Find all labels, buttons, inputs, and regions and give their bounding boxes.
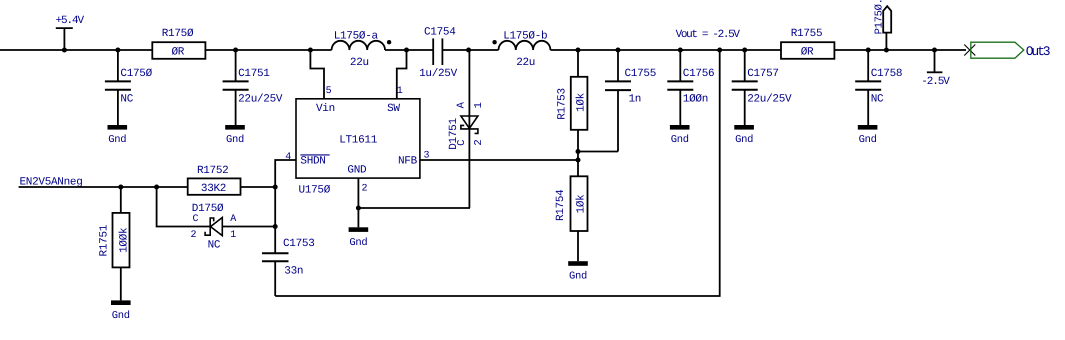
junction C1750 [115, 48, 120, 53]
capacitor C1750 [105, 50, 153, 125]
inductor L1750-b [492, 30, 550, 69]
svg-text:22u/25V: 22u/25V [747, 94, 792, 106]
capacitor C1755 [605, 50, 656, 152]
svg-text:R175Ø: R175Ø [162, 28, 194, 40]
svg-text:Gnd: Gnd [569, 271, 587, 283]
svg-text:C1757: C1757 [747, 68, 779, 80]
junction P1750 [884, 48, 889, 53]
wire to pin 1 SW [397, 50, 407, 99]
wire SHDN bus [275, 160, 296, 253]
svg-text:1: 1 [473, 102, 485, 108]
ground under R1751 [111, 300, 131, 322]
svg-text:C1754: C1754 [424, 27, 456, 39]
junction C1755 top [616, 48, 621, 53]
ground under U1750 [349, 227, 369, 249]
svg-text:5: 5 [326, 86, 332, 97]
resistor R1755 [781, 28, 834, 59]
power flag -2.5V [921, 50, 950, 88]
svg-text:1: 1 [230, 230, 236, 241]
ground under C1757 [734, 125, 754, 146]
svg-text:C175Ø: C175Ø [120, 68, 152, 80]
wire R1755 to output port [834, 49, 966, 51]
ground under R1754 [568, 261, 588, 282]
no-connect X at port pin [964, 45, 975, 56]
wire to D1750 cathode [157, 187, 211, 227]
pin name SHDN with overline [300, 155, 329, 168]
sheet port Out3 [971, 42, 1050, 59]
resistor R1752 [188, 165, 241, 195]
svg-text:P175Ø.: P175Ø. [874, 0, 886, 34]
svg-text:Vout = -2.5V: Vout = -2.5V [676, 29, 741, 41]
wire GND pin 2 [357, 178, 359, 227]
junction +5.4V tap [62, 48, 67, 53]
wire feedback loop [275, 50, 720, 296]
svg-text:R1755: R1755 [791, 28, 823, 40]
svg-text:SW: SW [387, 103, 400, 115]
junction D1750 branch [154, 185, 159, 190]
ground under C1756 [670, 125, 690, 146]
svg-text:NC: NC [120, 94, 133, 106]
svg-text:+5.4V: +5.4V [56, 15, 85, 27]
junction D1751 anode node [466, 48, 471, 53]
svg-text:GND: GND [347, 165, 367, 177]
svg-text:C1751: C1751 [238, 68, 270, 80]
svg-text:1u/25V: 1u/25V [419, 68, 458, 80]
svg-text:R1751: R1751 [99, 224, 111, 256]
ground under C1750 [108, 125, 128, 146]
svg-text:2: 2 [191, 230, 197, 241]
svg-text:2: 2 [362, 184, 368, 195]
svg-text:2: 2 [473, 140, 485, 146]
junction SHDN/D1750 [273, 224, 278, 229]
svg-text:Gnd: Gnd [735, 134, 753, 146]
junction C1756 [678, 48, 683, 53]
ground under C1751 [225, 125, 245, 146]
power flag +5.4V [56, 15, 85, 50]
resistor R1750 [152, 28, 205, 59]
junction C1757 [742, 48, 747, 53]
junction -2.5V tap [932, 48, 937, 53]
svg-text:SHDN: SHDN [300, 156, 325, 168]
svg-text:NFB: NFB [398, 156, 418, 168]
wire D1751 cathode to GND pin [358, 207, 470, 209]
svg-text:1ØØn: 1ØØn [683, 94, 708, 106]
svg-text:R1753: R1753 [557, 88, 569, 120]
svg-text:Vin: Vin [316, 103, 335, 115]
svg-text:Out3: Out3 [1026, 44, 1050, 59]
test point P1750 [874, 0, 892, 50]
junction SHDN/R1752 [273, 185, 278, 190]
svg-text:22u: 22u [516, 57, 535, 69]
svg-text:Gnd: Gnd [112, 310, 130, 322]
diode D1751 [448, 50, 485, 208]
diode D1750 [191, 203, 237, 252]
wire C1754 to D1751 node [442, 49, 498, 51]
capacitor C1753 [262, 238, 315, 296]
wire output rail [550, 49, 781, 51]
svg-text:NC: NC [208, 240, 221, 252]
svg-text:33n: 33n [284, 266, 303, 278]
svg-text:33K2: 33K2 [201, 183, 226, 195]
svg-text:1ØØk: 1ØØk [119, 227, 131, 253]
svg-text:L175Ø-a: L175Ø-a [334, 30, 379, 42]
svg-text:1Øk: 1Øk [576, 194, 588, 214]
svg-text:R1754: R1754 [555, 189, 567, 221]
junction R1751 top [118, 185, 123, 190]
resistor R1754 [555, 160, 588, 261]
svg-text:L175Ø-b: L175Ø-b [503, 30, 547, 42]
svg-text:4: 4 [285, 152, 291, 163]
svg-text:Gnd: Gnd [671, 134, 689, 146]
svg-text:ØR: ØR [171, 46, 184, 58]
ground under C1758 [858, 125, 878, 146]
svg-text:1Øk: 1Øk [576, 92, 588, 112]
wire D1750 anode [222, 226, 275, 228]
wire EN2V5ANneg net [19, 186, 188, 188]
svg-text:C1753: C1753 [283, 238, 315, 250]
svg-text:U175Ø: U175Ø [299, 185, 331, 197]
capacitor C1757 [732, 50, 792, 125]
svg-text:A: A [230, 214, 236, 225]
capacitor C1758 [855, 50, 902, 125]
inductor L1750-a [332, 30, 392, 69]
junction R1753 top [576, 48, 581, 53]
junction C1758 [866, 48, 871, 53]
svg-text:22u/25V: 22u/25V [238, 94, 283, 106]
capacitor C1756 [667, 50, 714, 125]
wire to pin 5 Vin [310, 50, 324, 99]
capacitor C1754 [419, 27, 458, 81]
wire C1755 bottom to divider [578, 151, 618, 153]
junction SW / C1754 node [404, 48, 409, 53]
wire R1750 to L1750-a [205, 49, 331, 51]
wire input +5.4V rail left [0, 49, 152, 51]
svg-text:1n: 1n [629, 93, 642, 105]
wire NFB net [420, 159, 578, 161]
capacitor C1751 [223, 50, 283, 125]
svg-text:C1755: C1755 [625, 68, 657, 80]
wire coil to C1754 [385, 49, 433, 51]
svg-text:R1752: R1752 [197, 165, 229, 177]
svg-text:1: 1 [397, 86, 403, 97]
junction feedback loop top [717, 48, 722, 53]
svg-text:C1758: C1758 [871, 68, 903, 80]
svg-text:ØR: ØR [801, 46, 814, 58]
resistor R1753 [557, 50, 588, 160]
svg-text:D1751: D1751 [448, 118, 460, 150]
svg-text:Gnd: Gnd [108, 134, 126, 146]
svg-text:-2.5V: -2.5V [921, 76, 950, 88]
resistor R1751 [99, 187, 131, 300]
junction GND pin node [356, 206, 361, 211]
svg-text:A: A [456, 101, 468, 108]
svg-text:Gnd: Gnd [349, 237, 367, 249]
junction Vin branch [308, 48, 313, 53]
svg-text:C1756: C1756 [683, 68, 715, 80]
svg-text:NC: NC [871, 94, 884, 106]
svg-text:22u: 22u [350, 57, 369, 69]
op-amp U1750 LT1611 box [296, 99, 420, 178]
svg-text:C: C [193, 214, 199, 225]
wire R1752 to SHDN bus [241, 186, 276, 188]
junction divider / C1755 [576, 149, 581, 154]
svg-text:LT1611: LT1611 [339, 135, 378, 147]
junction divider / NFB [576, 158, 581, 163]
junction C1751 [233, 48, 238, 53]
svg-text:Gnd: Gnd [226, 134, 244, 146]
svg-text:Gnd: Gnd [859, 134, 877, 146]
